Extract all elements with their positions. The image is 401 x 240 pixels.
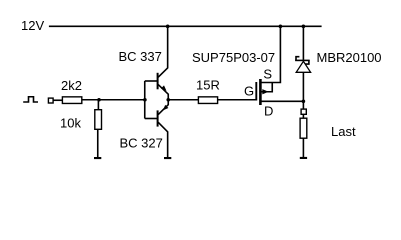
node rail diode [302, 25, 306, 29]
wire 10k to ground [97, 130, 99, 157]
pulse input symbol [23, 97, 38, 102]
transistor Q1 BC337 base bar [157, 73, 159, 90]
svg-text:SUP75P03-07: SUP75P03-07 [192, 50, 275, 65]
mosfet U1 gate bar [255, 82, 257, 101]
transistor Q2 emitter [158, 100, 168, 115]
node rail source [279, 25, 283, 29]
svg-text:10k: 10k [60, 116, 81, 131]
svg-text:12V: 12V [21, 18, 44, 33]
transistor Q2 BC327 base bar [157, 110, 159, 126]
wire rail to diode cathode [302, 26, 304, 60]
wire base split vertical [144, 81, 146, 119]
svg-text:BC 327: BC 327 [120, 136, 163, 151]
ground under load [300, 157, 307, 159]
wire base stub BC337 [145, 80, 158, 82]
resistor 10k [95, 110, 102, 130]
node rail collector [166, 25, 170, 29]
resistor load [300, 118, 307, 138]
ground under BC327 [164, 157, 171, 159]
diode D1 schottky left wing [296, 57, 299, 61]
ground under 10k [94, 157, 101, 159]
wire drain node to load [302, 101, 304, 118]
transistor Q1 emitter [158, 85, 168, 100]
terminal load tap [301, 109, 306, 114]
transistor Q2 emitter arrow [163, 105, 169, 111]
transistor Q1 collector [158, 26, 167, 77]
transistor Q2 collector [158, 122, 167, 157]
svg-text:15R: 15R [196, 78, 220, 93]
resistor 15R [198, 97, 217, 104]
svg-text:G: G [244, 84, 254, 99]
wire 12V rail [49, 25, 322, 27]
mosfet U1 drain lead [261, 100, 303, 102]
svg-text:S: S [263, 66, 272, 81]
mosfet U1 bulk lead [261, 83, 272, 92]
node 10k tap [97, 98, 101, 102]
svg-text:MBR20100: MBR20100 [317, 50, 382, 65]
wire diode to drain node [302, 73, 304, 102]
wire 2k2 to base node [82, 99, 145, 101]
input terminal [48, 98, 53, 103]
wire load to ground [302, 139, 304, 158]
diode D1 schottky right wing [305, 60, 309, 64]
svg-text:Last: Last [331, 124, 356, 139]
svg-text:BC 337: BC 337 [119, 49, 162, 64]
wire base stub BC327 [145, 118, 158, 120]
svg-text:D: D [264, 103, 273, 118]
wire input to R 2k2 [53, 99, 62, 101]
transistor Q1 emitter arrow [161, 85, 167, 91]
mosfet U1 source lead [261, 26, 280, 83]
node base split [143, 98, 147, 102]
diode D1 cathode bar [295, 59, 310, 61]
wire output to 15R [168, 99, 198, 101]
mosfet U1 channel bar [259, 79, 262, 105]
resistor 2k2 [62, 97, 81, 104]
node emitter output [166, 98, 170, 102]
wire 15R to gate [218, 99, 256, 101]
mosfet U1 bulk arrow [262, 89, 268, 94]
node drain junction [302, 100, 306, 104]
svg-text:2k2: 2k2 [61, 78, 82, 93]
diode D1 triangle MBR20100 [296, 61, 310, 72]
wire tap to 10k [97, 100, 99, 110]
